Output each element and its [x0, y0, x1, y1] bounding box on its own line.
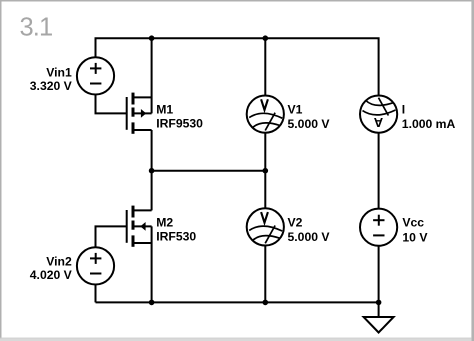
- svg-text:A: A: [373, 115, 383, 130]
- svg-text:M2: M2: [156, 215, 173, 229]
- svg-text:M1: M1: [156, 102, 173, 116]
- svg-text:5.000 V: 5.000 V: [288, 230, 331, 244]
- svg-text:1.000 mA: 1.000 mA: [402, 117, 456, 131]
- svg-text:3.1: 3.1: [20, 13, 53, 41]
- svg-text:V1: V1: [288, 102, 303, 116]
- svg-text:5.000 V: 5.000 V: [288, 117, 331, 131]
- svg-text:Vcc: Vcc: [402, 216, 424, 230]
- svg-text:10 V: 10 V: [402, 231, 428, 245]
- svg-text:3.320 V: 3.320 V: [30, 79, 73, 93]
- svg-text:IRF9530: IRF9530: [156, 117, 203, 131]
- svg-text:Vin1: Vin1: [46, 65, 72, 79]
- svg-text:V2: V2: [288, 215, 303, 229]
- svg-text:I: I: [402, 102, 405, 116]
- svg-text:4.020 V: 4.020 V: [30, 268, 73, 282]
- svg-text:IRF530: IRF530: [156, 230, 196, 244]
- svg-text:Vin2: Vin2: [46, 254, 72, 268]
